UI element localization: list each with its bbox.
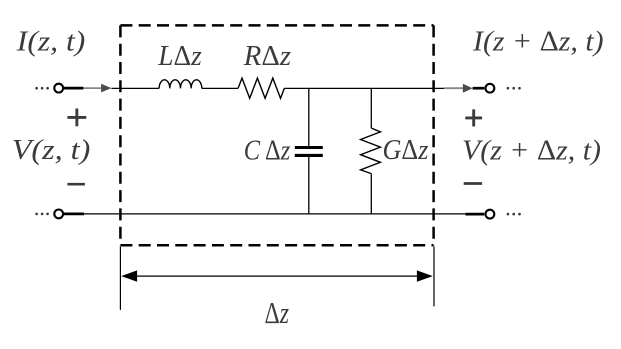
svg-text:I(z, t): I(z, t) <box>16 26 86 58</box>
bottom-left terminal <box>54 210 63 219</box>
wire: arrow tip to inductor <box>111 87 159 89</box>
minus sign (left port) <box>67 183 85 186</box>
top-left terminal <box>54 84 63 93</box>
wire: resistor to right edge <box>284 87 444 89</box>
plus sign (right port) <box>465 109 482 126</box>
dimension line Δz <box>135 275 419 277</box>
conductance branch wire (top) <box>370 88 372 128</box>
capacitor CΔz bottom plate <box>295 154 323 157</box>
resistor RΔz <box>238 78 284 98</box>
top-right terminal lead <box>473 87 485 90</box>
svg-text:​Δz: ​Δz <box>265 296 290 330</box>
minus sign (right port) <box>464 182 482 185</box>
bottom return wire <box>84 213 465 215</box>
ellipsis dots bottom-left <box>35 213 49 216</box>
svg-text:GΔz: GΔz <box>383 134 429 166</box>
inductor LΔz <box>159 80 202 89</box>
dimension arrowhead right <box>417 270 433 281</box>
svg-text:V(z + Δz, t): V(z + Δz, t) <box>462 135 601 167</box>
current arrow I(z+Δz,t) shaft <box>444 87 465 89</box>
wire: inductor to resistor <box>202 87 238 89</box>
svg-text:I(z + Δz, t): I(z + Δz, t) <box>472 25 604 57</box>
capacitor branch wire (bottom) <box>308 157 310 214</box>
ellipsis dots bottom-right <box>507 213 521 216</box>
current arrow I(z+Δz,t) head <box>463 84 473 93</box>
plus sign (left port) <box>67 109 86 127</box>
bottom-right terminal lead <box>465 213 484 216</box>
bottom-right terminal <box>486 210 495 219</box>
top-right terminal <box>486 84 495 93</box>
dimension arrowhead left <box>121 270 137 281</box>
resistor GΔz (shunt conductance) <box>361 128 381 174</box>
capacitor branch wire (top) <box>308 88 310 146</box>
dimension extension line (right) <box>433 247 435 307</box>
bottom-left terminal lead <box>63 213 84 216</box>
conductance branch wire (bottom) <box>370 174 372 214</box>
svg-text:C Δz: C Δz <box>244 134 290 166</box>
current arrow I(z,t) head <box>101 84 111 93</box>
capacitor CΔz top plate <box>295 146 323 149</box>
dashed boundary box (lumped section) <box>120 25 433 245</box>
svg-text:LΔz: LΔz <box>157 40 201 72</box>
current arrow I(z,t) shaft <box>83 87 103 89</box>
ellipsis dots top-left <box>35 87 49 90</box>
top-left terminal lead <box>63 87 83 90</box>
dimension extension line (left) <box>119 247 121 310</box>
svg-text:RΔz: RΔz <box>243 40 291 72</box>
ellipsis dots top-right <box>507 87 521 90</box>
svg-text:V(z, t): V(z, t) <box>12 134 91 166</box>
